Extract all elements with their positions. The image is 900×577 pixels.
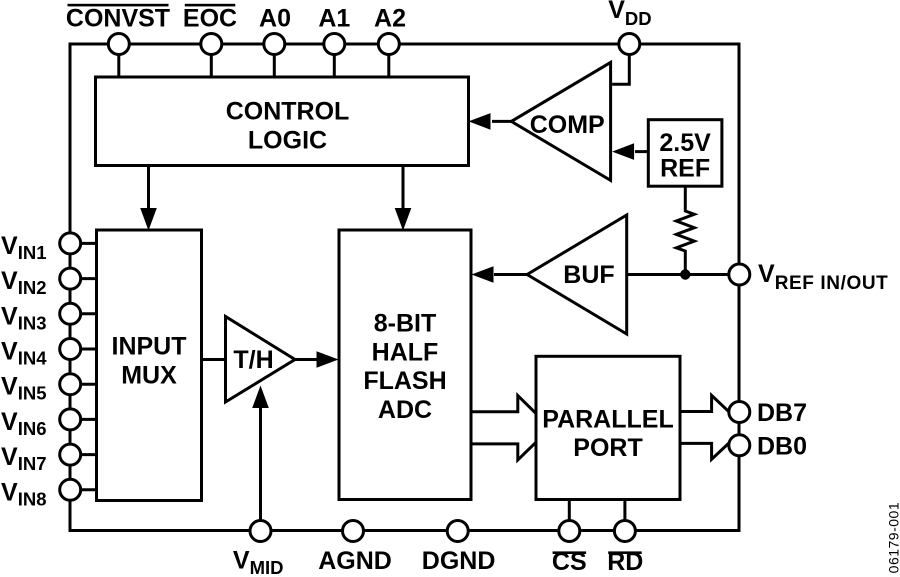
pin VIN5: [1, 373, 98, 404]
pin A0: [259, 4, 291, 78]
wire VMID to T/H (arrow up): [252, 386, 269, 521]
wire COMP to control logic (arrow left): [469, 113, 512, 130]
svg-text:A1: A1: [318, 4, 350, 32]
block 8-BIT HALF FLASH ADC: [339, 230, 471, 500]
svg-text:DB7: DB7: [757, 399, 807, 427]
pin VMID: [233, 521, 284, 577]
pin DGND: [422, 521, 496, 576]
pin AGND: [318, 521, 392, 576]
svg-text:VREF IN/OUT: VREF IN/OUT: [758, 260, 888, 294]
bus arrow ADC to parallel port lower: [471, 442, 536, 460]
block PARALLEL PORT: [536, 356, 680, 499]
svg-text:INPUT: INPUT: [112, 333, 187, 361]
svg-text:06179-001: 06179-001: [885, 502, 900, 573]
pin VIN3: [1, 302, 98, 333]
svg-text:HALF: HALF: [372, 338, 439, 366]
pin A2: [374, 4, 406, 78]
junction node VREF: [680, 269, 690, 279]
svg-text:FLASH: FLASH: [363, 367, 446, 395]
svg-text:MUX: MUX: [121, 362, 177, 390]
svg-text:COMP: COMP: [530, 111, 605, 139]
svg-text:VIN6: VIN6: [1, 408, 46, 439]
wire BUF to VREF IN/OUT pin: [627, 273, 740, 276]
pin VIN8: [1, 478, 98, 509]
svg-text:EOC: EOC: [183, 4, 237, 32]
svg-text:REF: REF: [660, 155, 710, 183]
block INPUT MUX: [97, 230, 202, 501]
wire control logic to input mux (arrow down): [140, 165, 157, 231]
svg-text:LOGIC: LOGIC: [248, 127, 327, 155]
svg-text:VIN5: VIN5: [1, 373, 46, 404]
resistor from 2.5V REF to VREF node: [676, 186, 694, 274]
svg-text:2.5V: 2.5V: [659, 129, 711, 157]
svg-text:A2: A2: [374, 4, 406, 32]
svg-text:BUF: BUF: [563, 261, 614, 289]
amplifier T/H: [226, 317, 296, 403]
pin VDD: [608, 0, 651, 55]
wire T/H to ADC (arrow right): [295, 351, 339, 368]
svg-text:CS: CS: [552, 548, 587, 576]
bus arrow parallel port to DB7: [680, 395, 732, 414]
svg-text:VMID: VMID: [233, 547, 284, 577]
pin DB0: [729, 432, 807, 460]
svg-text:VIN3: VIN3: [1, 302, 46, 333]
bus arrow ADC to parallel port upper: [471, 396, 536, 414]
svg-text:VIN4: VIN4: [1, 338, 47, 369]
svg-text:VIN8: VIN8: [1, 478, 46, 509]
block CONTROL LOGIC: [96, 77, 469, 166]
svg-text:RD: RD: [607, 548, 643, 576]
svg-text:VDD: VDD: [608, 0, 651, 29]
pin VREF IN/OUT: [729, 260, 889, 294]
pin A1: [318, 4, 350, 78]
svg-text:PORT: PORT: [573, 434, 642, 462]
svg-text:CONVST: CONVST: [66, 4, 170, 32]
svg-text:PARALLEL: PARALLEL: [542, 406, 673, 434]
pin VIN2: [1, 267, 98, 298]
pin RD: [607, 500, 643, 577]
amplifier COMP: [511, 62, 610, 180]
svg-text:VIN2: VIN2: [1, 267, 46, 298]
pin VIN1: [1, 232, 98, 263]
svg-text:T/H: T/H: [233, 346, 273, 374]
chip boundary: [70, 44, 739, 531]
wire BUF to ADC (arrow left): [472, 266, 528, 283]
bus arrow parallel port to DB0: [680, 441, 732, 460]
pin VIN6: [1, 408, 98, 439]
pin CONVST: [66, 4, 170, 78]
svg-text:VIN7: VIN7: [1, 443, 46, 474]
svg-text:8-BIT: 8-BIT: [374, 310, 437, 338]
pin VIN4: [1, 338, 98, 369]
svg-text:CONTROL: CONTROL: [226, 98, 350, 126]
wire control logic to ADC (arrow down): [395, 165, 412, 231]
wire 2.5V REF to COMP (arrow left): [612, 143, 648, 160]
pin EOC: [183, 4, 237, 78]
svg-text:DB0: DB0: [757, 432, 807, 460]
amplifier BUF: [527, 215, 627, 334]
svg-text:DGND: DGND: [422, 547, 496, 575]
pin VIN7: [1, 443, 98, 474]
pin DB7: [729, 399, 807, 427]
wire VDD to COMP: [612, 55, 629, 85]
pin CS: [552, 500, 587, 577]
svg-text:A0: A0: [259, 4, 291, 32]
block 2.5V REF: [648, 120, 722, 187]
wire input mux to T/H: [202, 358, 226, 361]
svg-text:VIN1: VIN1: [1, 232, 46, 263]
svg-text:ADC: ADC: [378, 396, 432, 424]
svg-text:AGND: AGND: [318, 547, 392, 575]
